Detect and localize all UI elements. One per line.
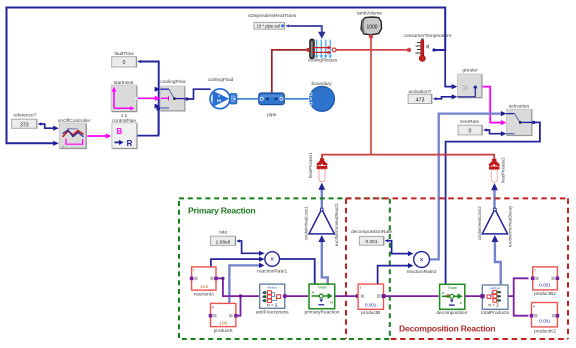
- svg-text:B: B: [330, 300, 333, 305]
- svg-text:decomposition: decomposition: [436, 310, 467, 316]
- wire productB to decomposition (chemical): [386, 295, 439, 297]
- svg-text:0: 0: [469, 129, 472, 135]
- wire controlPipe to coolingFlow u3: [138, 105, 162, 136]
- wire consumerTemperature to greater u1: [432, 48, 457, 89]
- node activationT parameter box 473: [408, 89, 432, 104]
- wire reactionRate1 y to primaryReaction: [280, 259, 315, 284]
- wire tankVolume down to heat bus (thermal): [369, 34, 373, 154]
- substance mixer antiFreezeness: [256, 284, 289, 315]
- svg-text:faultFlow: faultFlow: [114, 51, 134, 57]
- svg-text:K: K: [426, 45, 430, 51]
- wire pipe to boundary (fluid): [284, 98, 309, 100]
- substance productB2: [531, 267, 559, 297]
- wire gain2 to heatProcess2: [491, 183, 498, 209]
- svg-text:n = 2: n = 2: [488, 302, 499, 307]
- svg-text:f: f: [535, 269, 536, 273]
- svg-text:k: k: [460, 300, 462, 305]
- svg-text:exothermicHeatReact1: exothermicHeatReact1: [334, 203, 339, 246]
- svg-text:k: k: [212, 305, 214, 309]
- svg-text:10 * pipe.val: 10 * pipe.val: [257, 24, 280, 29]
- svg-text:exothermicHeatDecay: exothermicHeatDecay: [507, 205, 512, 247]
- wire startHeat to coolingFlow u2 (boolean): [138, 96, 169, 101]
- svg-text:R: R: [127, 139, 133, 148]
- svg-text:0.001: 0.001: [365, 302, 377, 307]
- wire reactantA conc to reactionRate1 u2: [211, 257, 265, 267]
- substance reactantA: [190, 267, 218, 298]
- substance mixer totalProducts: [480, 285, 509, 316]
- svg-text:Twater: Twater: [448, 286, 459, 290]
- svg-text:f: f: [193, 269, 194, 273]
- svg-text:0: 0: [123, 60, 126, 66]
- sensor consumerTemperature thermometer: [404, 33, 452, 62]
- svg-text:productB2: productB2: [534, 291, 556, 297]
- substance productB: [358, 284, 386, 316]
- substance productK: [209, 303, 238, 333]
- wire primaryReaction heat to gain1: [318, 235, 327, 284]
- component heatProcess2 prescribed heat flow: [489, 157, 506, 183]
- svg-text:1.08e8: 1.08e8: [216, 239, 231, 245]
- svg-text:0.001: 0.001: [365, 239, 377, 245]
- wire decompositionRate to reactionRate2 u1: [385, 239, 414, 256]
- svg-text:pipe: pipe: [267, 112, 276, 118]
- svg-text:coolantHeatLoss2: coolantHeatLoss2: [477, 206, 482, 240]
- svg-text:×: ×: [270, 257, 274, 264]
- node decompositionRate parameter box: [351, 229, 392, 245]
- dashed box Primary Reaction: [179, 198, 390, 339]
- wire antiFreezeness to primaryReaction (chemical): [285, 295, 308, 297]
- wire onOffController y to controlPipe (boolean): [87, 133, 111, 138]
- wire primaryReaction to productB (chemical): [335, 294, 360, 298]
- svg-text:0.001: 0.001: [539, 282, 551, 287]
- svg-text:productK: productK: [214, 328, 234, 334]
- svg-text:0.001: 0.001: [539, 319, 551, 324]
- block reactionRate2 product: [407, 252, 437, 275]
- wire xDependentHeatTrans to coolingPlosses Gc: [285, 24, 325, 39]
- svg-text:473: 473: [416, 97, 425, 103]
- wire totalProducts to product boxes (chemical): [508, 278, 528, 315]
- wire productK conc to reactionRate1 u3: [229, 263, 264, 303]
- wire feedback loop consumerTemperature to onOffController: [7, 8, 446, 146]
- svg-text:1e3: 1e3: [200, 284, 208, 290]
- svg-text:reactionRate1: reactionRate1: [257, 269, 287, 275]
- block startHeat (table icon): [111, 80, 137, 112]
- svg-text:consumerTemperature: consumerTemperature: [404, 33, 452, 39]
- svg-text:1000: 1000: [366, 24, 377, 30]
- node rate parameter box: [210, 229, 235, 245]
- pump coolingFluid: [208, 77, 237, 109]
- svg-text:Twater: Twater: [318, 286, 329, 290]
- svg-text:k: k: [533, 304, 535, 308]
- reaction decomposition: [436, 284, 467, 316]
- wire coolingFlow y to pump control input: [185, 89, 210, 100]
- wire referenceT to onOffController u1: [38, 122, 59, 130]
- svg-text:antiFreezeness: antiFreezeness: [256, 309, 289, 315]
- block activation switch: [506, 104, 532, 136]
- svg-text:rate: rate: [219, 229, 228, 235]
- svg-text:B: B: [117, 127, 123, 136]
- svg-text:heatProcess2: heatProcess2: [501, 157, 506, 183]
- svg-text:>: >: [462, 83, 468, 95]
- node xDependentHeatTrans parameter box: [248, 13, 297, 29]
- svg-text:coolantHeatLoss1: coolantHeatLoss1: [304, 206, 309, 240]
- svg-text:totProd: totProd: [490, 286, 500, 290]
- block onOffController: [58, 118, 91, 149]
- svg-text:activation: activation: [509, 104, 530, 110]
- node referenceT parameter box 373: [12, 113, 37, 129]
- reaction primaryReaction: [305, 284, 340, 315]
- node faultFlow parameter box 0: [112, 51, 137, 67]
- wire productB conc to reactionRate2 u2: [378, 263, 414, 284]
- component coolingPlosses convection: [306, 39, 338, 63]
- svg-text:heatProcess1: heatProcess1: [308, 152, 313, 178]
- svg-text:primaryReaction: primaryReaction: [305, 309, 340, 315]
- wire reactionRate2 y to activation u1: [430, 111, 507, 259]
- component heatProcess1 prescribed heat flow: [308, 152, 328, 182]
- substance productK2: [530, 303, 559, 335]
- svg-text:373: 373: [20, 123, 29, 129]
- wire totalProducts to gain2: [492, 235, 501, 284]
- svg-text:zeroRate: zeroRate: [460, 119, 480, 125]
- block controlPipe BooleanToReal: [112, 113, 137, 149]
- wire pipe heatPort up to coolingPlosses (thermal): [272, 50, 307, 93]
- node zeroRate parameter box 0: [458, 119, 482, 135]
- block greater: [458, 68, 483, 98]
- svg-text:decompositionRate: decompositionRate: [351, 229, 392, 235]
- component pipe: [259, 93, 285, 118]
- svg-text:Primary Reaction: Primary Reaction: [188, 206, 255, 216]
- svg-text:n = 2: n = 2: [267, 303, 278, 308]
- wire rate to reactionRate1 u1: [236, 239, 264, 256]
- svg-text:tankVolume: tankVolume: [357, 11, 382, 17]
- svg-text:MixBox: MixBox: [267, 285, 277, 289]
- wire productK to mixture bus (chemical): [238, 294, 243, 315]
- wire reactantA to mixture bus (chemical): [218, 277, 259, 296]
- svg-text:reactionRate2: reactionRate2: [407, 269, 437, 275]
- dashed box Decomposition Reaction: [346, 198, 568, 339]
- wire pump to pipe (fluid): [237, 98, 259, 100]
- wire coolingPlosses to tank and consumerTemperature (thermal): [336, 48, 411, 52]
- block reactionRate1 product: [257, 252, 287, 275]
- wire gain1 to heatProcess1: [318, 183, 325, 209]
- wire activation y to decomposition rate input: [446, 121, 540, 284]
- wire decomposition to totalProducts (chemical): [465, 295, 482, 297]
- svg-text:100: 100: [219, 321, 227, 327]
- svg-text:xDependentHeatTrans: xDependentHeatTrans: [248, 13, 297, 19]
- svg-text:f: f: [360, 286, 361, 290]
- svg-text:Decomposition Reaction: Decomposition Reaction: [399, 323, 495, 333]
- svg-text:A: A: [442, 290, 445, 295]
- svg-text:m: m: [217, 98, 221, 103]
- svg-text:productK2: productK2: [534, 329, 556, 335]
- svg-text:totalProducts: totalProducts: [481, 310, 510, 316]
- svg-text:greater: greater: [462, 68, 478, 74]
- component tankVolume heat capacitor 1000: [357, 11, 382, 35]
- svg-text:coolingFluid: coolingFluid: [208, 77, 234, 83]
- wire faultFlow to coolingFlow u1: [137, 60, 160, 135]
- svg-text:referenceT: referenceT: [13, 113, 36, 119]
- triangle gain coolantHeatLoss1: [304, 203, 340, 246]
- wire activationT to greater u2: [433, 94, 458, 100]
- wire greater y to activation u2 (boolean): [482, 87, 506, 126]
- component boundary: [309, 81, 335, 111]
- wire zeroRate to activation u3: [483, 128, 506, 136]
- svg-text:×: ×: [419, 255, 423, 264]
- svg-text:productB: productB: [361, 310, 380, 316]
- block coolingFlow switch: [160, 79, 186, 111]
- svg-text:A: A: [312, 290, 315, 295]
- wire thermal bus heatProcess1 to heatProcess2: [322, 155, 494, 159]
- svg-text:reactantA: reactantA: [194, 291, 215, 297]
- svg-text:coolingFlow: coolingFlow: [160, 79, 186, 85]
- triangle gain coolantHeatLoss2: [477, 205, 513, 247]
